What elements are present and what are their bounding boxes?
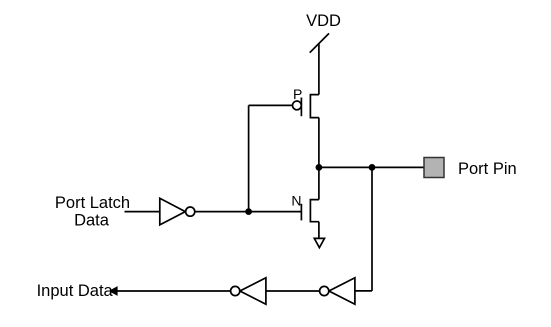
- wire PMOS gate input: [249, 104, 293, 106]
- wire NMOS source to ground: [318, 222, 320, 239]
- svg-text:Data: Data: [74, 212, 110, 230]
- wire PMOS drain to output node: [318, 118, 320, 168]
- pad Port Pin: [424, 158, 444, 178]
- node junction A (output node): [316, 164, 323, 171]
- inverter U1: [160, 198, 195, 225]
- node junction B (input-data tap): [369, 164, 376, 171]
- wire output node to port pin: [319, 166, 424, 168]
- transistor P (PMOS pull-up): [293, 95, 319, 118]
- wire U2 to Input Data arrow: [117, 290, 231, 292]
- svg-text:P: P: [293, 86, 302, 102]
- wire Port Latch Data to inverter U1: [125, 211, 160, 213]
- wire U3 to U2: [266, 290, 320, 292]
- power symbol VDD slash: [310, 33, 329, 52]
- wire gate node to PMOS gate: [248, 105, 250, 211]
- ground: [314, 238, 324, 247]
- svg-text:N: N: [291, 193, 301, 209]
- wire tap to inverter U3: [355, 290, 372, 292]
- label Port Latch Data: [55, 194, 130, 229]
- wire U1 output to transistor gates: [195, 211, 302, 213]
- inverter U2: [231, 278, 266, 304]
- wire VDD to PMOS source: [318, 43, 320, 94]
- wire output node to NMOS drain: [318, 167, 320, 199]
- svg-text:Input Data: Input Data: [37, 282, 114, 300]
- wire input-data tap down: [371, 167, 373, 291]
- node junction C (gate node): [245, 208, 252, 215]
- svg-text:Port Pin: Port Pin: [458, 160, 517, 178]
- inverter U3: [320, 278, 355, 304]
- transistor N (NMOS pull-down): [301, 200, 319, 222]
- arrowhead Input Data: [109, 286, 118, 296]
- svg-text:VDD: VDD: [306, 12, 341, 30]
- svg-text:Port Latch: Port Latch: [55, 194, 130, 212]
